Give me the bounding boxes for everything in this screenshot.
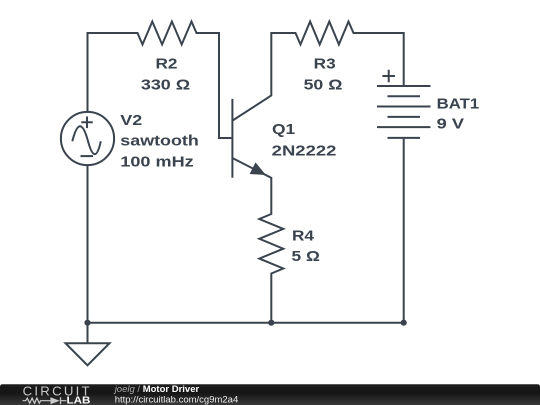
- svg-text:9 V: 9 V: [437, 116, 464, 133]
- svg-text:Q1: Q1: [272, 121, 295, 138]
- svg-text:BAT1: BAT1: [437, 95, 480, 112]
- svg-text:LAB: LAB: [67, 396, 91, 405]
- svg-text:R3: R3: [314, 56, 336, 73]
- svg-text:R2: R2: [156, 56, 178, 73]
- svg-text:R4: R4: [292, 227, 315, 244]
- svg-text:5 Ω: 5 Ω: [292, 248, 320, 265]
- svg-text:50 Ω: 50 Ω: [304, 76, 343, 93]
- svg-text:http://circuitlab.com/cg9m2a4: http://circuitlab.com/cg9m2a4: [115, 394, 239, 405]
- svg-text:100 mHz: 100 mHz: [120, 153, 193, 170]
- svg-text:V2: V2: [120, 112, 142, 129]
- svg-text:330 Ω: 330 Ω: [141, 77, 190, 94]
- svg-text:2N2222: 2N2222: [272, 143, 337, 160]
- svg-text:sawtooth: sawtooth: [120, 133, 199, 150]
